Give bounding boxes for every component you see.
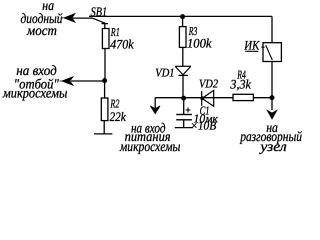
svg-text:мост: мост [26,24,57,39]
wire R3 top lead [182,18,184,27]
svg-text:микросхемы: микросхемы [119,140,180,155]
wire C1 bottom lead [183,120,185,127]
wire node A to R2 top [104,82,106,98]
wire node C down arrow shaft [271,98,273,110]
junction node C (IK/R4/узел) [270,95,275,100]
IR receiver IK box [263,43,281,62]
switch SB1 fixed contact [102,24,109,29]
wire R2 bottom lead [103,121,105,134]
wire junction A to left arrow [71,80,103,82]
diode VD2 [202,90,214,106]
svg-text:×10В: ×10В [190,119,217,133]
arrow down to power input [150,106,160,114]
svg-text:470k: 470k [110,36,133,51]
arrow to otboy input (left) [60,77,74,86]
arrow to diode bridge (left) [61,14,75,23]
resistor R4 [233,94,253,100]
wire bottom-left corner down arrow shaft [154,98,156,108]
svg-text:микросхемы: микросхемы [2,87,67,102]
junction at VD2 cathode [200,96,204,100]
arrow down to speech node [267,111,276,119]
capacitor C1 plus sign [186,108,191,113]
IK box diagonal [266,45,273,60]
wire left lead to SB1 blade [72,17,93,19]
junction node A (R1/R2/отбой) [102,78,107,83]
svg-text:22k: 22k [110,109,126,124]
wire IK bottom vertical to node C [271,62,273,98]
svg-text:3,3k: 3,3k [229,77,251,92]
label IK underline [245,50,258,52]
resistor R3 [179,27,186,48]
junction node B (VD1/C1/bottom bus) [181,96,186,101]
wire C1 top lead [183,100,185,114]
ground under R2 [94,133,112,135]
ground under C1 [175,127,193,129]
resistor R2 [101,98,108,121]
svg-text:100k: 100k [187,36,212,51]
diode VD1 [175,66,191,75]
wire bottom bus [155,97,272,99]
wire IK top vertical drop [271,16,273,42]
svg-text:VD1: VD1 [155,65,174,79]
resistor R1 [102,29,109,49]
switch SB1 blade [93,18,105,23]
svg-text:VD2: VD2 [199,76,218,90]
wire R1 bottom to node A [104,49,106,80]
wire R3 bottom to VD1 [182,47,184,66]
capacitor C1 plates [176,115,192,120]
IK box left tick [261,46,264,48]
svg-text:SB1: SB1 [91,4,108,19]
junction node top (R3 tap) [180,14,185,19]
wire VD1 cathode to node B [182,75,184,96]
svg-text:узел: узел [258,140,287,155]
svg-text:ИК: ИК [243,38,260,53]
wire top bus (SB1 underline continuing right to IK branch) [89,15,272,17]
